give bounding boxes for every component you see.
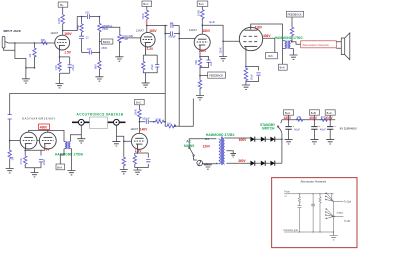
- wire center tap: [226, 151, 233, 154]
- net wire return vertical: [178, 34, 180, 127]
- node OT secondary top: [291, 41, 293, 43]
- svg-text:FEEDBACK: FEEDBACK: [288, 13, 302, 17]
- resistor R21 rail dropper 1: [296, 115, 303, 121]
- resistor R13 feedback: [290, 27, 293, 42]
- wire plate rail driver: [29, 130, 64, 141]
- net wire dry send vertical: [164, 26, 166, 122]
- wire grid driver: [10, 140, 40, 142]
- svg-text:B+C: B+C: [136, 101, 141, 105]
- svg-text:56K: 56K: [76, 25, 80, 30]
- svg-text:400V: 400V: [40, 125, 48, 129]
- svg-text:1uF: 1uF: [209, 61, 213, 66]
- svg-text:56K: 56K: [194, 60, 198, 65]
- reverb tank body: [90, 117, 108, 128]
- switch SW1 power: [189, 144, 197, 160]
- capacitor C11 cathode driver: [39, 159, 46, 168]
- svg-text:25uF: 25uF: [42, 159, 46, 165]
- svg-text:120V: 120V: [203, 145, 211, 149]
- wire rectifier join: [281, 139, 283, 163]
- svg-text:160V: 160V: [64, 32, 72, 36]
- net label B+C box mid: [135, 99, 145, 108]
- svg-text:100K: 100K: [155, 118, 161, 122]
- resistor R5 slope: [76, 16, 83, 34]
- transformer T1 output: [283, 41, 294, 65]
- attenuator resistor Ra2: [319, 194, 321, 232]
- svg-text:047: 047: [87, 47, 92, 51]
- ground cathode V1: [56, 84, 64, 88]
- resistor R11 cathode lower: [198, 80, 201, 96]
- potentiometer VR1 treble 250K: [98, 16, 113, 33]
- net label B+A box driver: [56, 164, 65, 170]
- speaker SPK1: [336, 33, 350, 60]
- wire volume wiper to V2 grid: [122, 37, 142, 39]
- resistor R3 100K plate: [57, 14, 65, 36]
- node jack shunt: [14, 42, 16, 44]
- svg-text:ACCUTRONICS 8AB2A1B: ACCUTRONICS 8AB2A1B: [77, 112, 124, 116]
- ground grid leak power: [219, 57, 227, 61]
- ground grid driver: [6, 169, 14, 173]
- svg-text:To 4R: To 4R: [344, 221, 350, 223]
- svg-text:250K: 250K: [101, 46, 107, 50]
- capacitor C4 047: [82, 47, 100, 55]
- svg-text:180V: 180V: [203, 29, 211, 33]
- svg-text:HAMMOND 1750C: HAMMOND 1750C: [275, 36, 304, 40]
- bass pot box VR2: [99, 33, 113, 51]
- ground center tap: [230, 153, 236, 157]
- attenuator switch fan upper: [325, 193, 343, 202]
- svg-text:160V: 160V: [149, 29, 157, 33]
- svg-text:B+C: B+C: [327, 111, 332, 115]
- svg-text:500pF: 500pF: [169, 35, 177, 39]
- diode D2: [261, 137, 271, 142]
- wire plate to OT primary: [251, 24, 283, 41]
- net label B+ box stage1: [58, 2, 68, 14]
- net label B+B box: [266, 52, 278, 58]
- svg-text:100K: 100K: [57, 18, 61, 24]
- wire tank output down: [115, 125, 117, 141]
- svg-text:HAMMOND 1750A: HAMMOND 1750A: [55, 153, 84, 157]
- svg-text:220K: 220K: [219, 47, 223, 53]
- attenuator bottom wire: [284, 231, 333, 233]
- cathode network recovery wires: [135, 149, 149, 170]
- ground filter 1: [285, 140, 293, 144]
- attenuator node dots top: [299, 193, 333, 194]
- potentiometer VR3 volume 1M: [118, 34, 134, 44]
- wire jack sleeve: [4, 43, 26, 79]
- node plate stage2: [146, 25, 148, 27]
- capacitor C14 filter 1: [285, 119, 294, 140]
- resistor R1 1M grid leak: [25, 43, 36, 69]
- ground filter 3: [326, 140, 334, 144]
- attenuator cap Ca2: [311, 194, 315, 232]
- svg-text:12AX7: 12AX7: [136, 28, 144, 32]
- resistor R9 100K plate stage3: [196, 9, 204, 25]
- svg-text:12AX7: 12AX7: [50, 31, 58, 35]
- svg-text:100K: 100K: [196, 10, 200, 16]
- resistor R6 6K8 bass bottom: [94, 42, 102, 77]
- node plate recovery: [139, 121, 141, 123]
- wire to V3 grid: [178, 38, 180, 40]
- cathode join driver wires: [25, 149, 45, 173]
- tube V5B driver triode: [39, 132, 56, 149]
- jack tank input: [78, 119, 84, 125]
- svg-text:B+C: B+C: [143, 2, 148, 6]
- svg-text:100K: 100K: [141, 13, 145, 19]
- resistor R14 cathode driver: [19, 155, 27, 168]
- ground filter 2: [310, 140, 318, 144]
- resistor R8 cathode stage2: [142, 60, 145, 71]
- attenuator network red box small: [301, 41, 337, 48]
- tube V2 triode: [141, 32, 156, 55]
- resistor R19 100K mix: [155, 118, 165, 124]
- svg-text:1M: 1M: [167, 122, 171, 126]
- net label FEEDBACK box top: [286, 11, 303, 26]
- svg-text:1M: 1M: [28, 54, 32, 58]
- diode D1: [250, 137, 260, 142]
- svg-text:418V: 418V: [255, 25, 263, 29]
- attenuator node dots bottom: [299, 231, 334, 232]
- voltage 400V red box driver: [39, 124, 50, 130]
- svg-text:B+A: B+A: [280, 66, 285, 70]
- svg-text:16R(4): 16R(4): [336, 213, 343, 215]
- cathode network V4 wires: [246, 52, 259, 85]
- attenuator network big red box: [272, 178, 357, 248]
- svg-text:INPUT JACK: INPUT JACK: [4, 29, 22, 33]
- tube V1 triode: [55, 35, 70, 52]
- svg-text:140V: 140V: [140, 128, 148, 132]
- diode D6: [270, 161, 282, 166]
- ground volume: [115, 42, 123, 61]
- svg-text:1M: 1M: [10, 157, 14, 161]
- svg-text:400V: 400V: [309, 116, 317, 120]
- ground tank output: [112, 142, 120, 146]
- svg-text:Attenuator Network: Attenuator Network: [301, 180, 327, 184]
- resistor R4 1.5K cathode: [54, 57, 61, 72]
- ground tank input: [77, 139, 85, 143]
- resistor R23 grid leak power: [219, 41, 224, 56]
- svg-text:HAMMOND 372BX: HAMMOND 372BX: [206, 133, 235, 137]
- svg-text:115: 115: [205, 137, 210, 141]
- resistor R7 100K plate stage2: [141, 9, 149, 20]
- resistor R22 rail dropper 2: [320, 115, 327, 121]
- svg-text:40uF: 40uF: [294, 127, 300, 131]
- svg-text:500pF: 500pF: [142, 116, 150, 120]
- input jack J1: [2, 29, 22, 48]
- tube V6 recovery triode: [131, 133, 147, 149]
- attenuator ground: [330, 232, 338, 240]
- ground recovery grid: [120, 170, 128, 174]
- wire plate V2 to caps: [147, 25, 168, 27]
- capacitor C9 cathode power: [250, 73, 261, 80]
- tube V3 triode: [194, 34, 210, 50]
- ground transformer reverb: [68, 171, 76, 175]
- capacitor C12 cathode recovery: [146, 160, 150, 162]
- resistor R18 cathode recovery: [133, 155, 136, 165]
- ground recovery cathode: [134, 170, 142, 174]
- net label B+A box OT: [278, 64, 287, 70]
- svg-text:Common gnd: Common gnd: [283, 229, 298, 232]
- svg-text:SWITCH: SWITCH: [262, 127, 275, 131]
- resistor R10 cathode upper: [194, 57, 202, 80]
- wire plate recovery out: [139, 121, 154, 123]
- attenuator switch fan lower: [325, 201, 343, 232]
- wire plate V3 to power grid: [202, 25, 240, 41]
- node mix left: [153, 121, 155, 123]
- attenuator resistor Ra1: [298, 194, 300, 206]
- svg-text:022: 022: [85, 10, 90, 14]
- cathode network V1: wire: [60, 52, 70, 84]
- wire plate V1 to coupling: [63, 17, 87, 31]
- resistor R16 1M recovery grid: [122, 141, 125, 169]
- tube V5A driver triode: [20, 132, 37, 149]
- wire return drop: [179, 99, 193, 127]
- svg-text:From: From: [284, 191, 290, 194]
- B+ rail wire: [282, 119, 335, 121]
- svg-text:1.2V: 1.2V: [147, 47, 154, 51]
- net label B+C box stage3: [197, 1, 208, 9]
- svg-text:12AX7: 12AX7: [130, 127, 138, 131]
- node plate stage3: [202, 25, 204, 27]
- capacitor C6 02: [170, 21, 179, 27]
- node mix mid: [164, 121, 166, 123]
- svg-text:40uF: 40uF: [320, 127, 326, 131]
- svg-text:8X 218R/460V: 8X 218R/460V: [340, 126, 357, 130]
- wire grid stage1: [8, 42, 55, 44]
- net label FEEDBACK box mid: [208, 72, 226, 78]
- capacitor C7 500pF parallel: [164, 26, 180, 39]
- capacitor C2 022 coupling: [85, 10, 99, 19]
- resistor R20 1M mix: [165, 122, 176, 128]
- svg-text:6L6: 6L6: [268, 54, 273, 58]
- svg-text:4K7: 4K7: [321, 115, 326, 119]
- transformer T2 reverb: [60, 135, 81, 171]
- ground OT secondary: [290, 49, 298, 60]
- svg-text:GA3Y6A4/6R26/6AY: GA3Y6A4/6R26/6AY: [22, 116, 56, 120]
- svg-text:50uF: 50uF: [250, 74, 254, 80]
- svg-text:6K8: 6K8: [94, 64, 98, 69]
- resistor R12 cathode power: [244, 67, 248, 83]
- svg-text:B+A: B+A: [57, 165, 62, 169]
- net label B+A rail box: [284, 110, 294, 120]
- resistor R2 68K grid stopper: [41, 38, 49, 45]
- cathode network V2 wires: [143, 55, 157, 83]
- svg-text:360V: 360V: [238, 159, 246, 163]
- svg-text:5puF: 5puF: [209, 20, 215, 24]
- svg-text:B+: B+: [60, 3, 64, 7]
- svg-text:1.5K: 1.5K: [54, 65, 58, 71]
- ground driver cathode: [31, 173, 39, 177]
- reverb tank bar: [72, 121, 126, 123]
- standby switch SW2: [277, 120, 282, 139]
- svg-text:600V: 600V: [239, 138, 247, 142]
- capacitor C10 send: [8, 115, 12, 119]
- svg-text:250K: 250K: [102, 27, 108, 31]
- svg-text:270R: 270R: [19, 158, 23, 164]
- capacitor C8 cathode bypass: [200, 57, 213, 68]
- svg-text:To Spk: To Spk: [344, 201, 352, 203]
- svg-text:310V: 310V: [325, 116, 333, 120]
- net label B+B rail box: [309, 110, 319, 120]
- ground bass: [95, 77, 103, 81]
- wire secondary top: [225, 137, 251, 139]
- svg-text:1.3V: 1.3V: [135, 149, 142, 153]
- wire send vertical left: [9, 93, 11, 140]
- ground stage3 cathode: [196, 96, 204, 100]
- resistor R15 1M grid driver: [8, 141, 14, 169]
- wire tank output to recovery grid: [116, 136, 131, 141]
- net label B+C box stage2: [142, 1, 152, 9]
- svg-text:B+B: B+B: [311, 111, 316, 115]
- wire cathode column: [199, 50, 201, 56]
- wire treble wiper to volume: [103, 27, 120, 34]
- capacitor C15 filter 2: [311, 119, 320, 140]
- svg-text:25uF: 25uF: [71, 64, 75, 70]
- capacitor C1 25uF bypass: [68, 57, 75, 73]
- svg-text:Attenuator Network: Attenuator Network: [302, 43, 329, 47]
- svg-text:100K: 100K: [133, 109, 137, 115]
- diode D4: [250, 161, 260, 166]
- svg-text:B+A: B+A: [285, 111, 290, 115]
- ground power cathode: [242, 85, 250, 89]
- svg-text:25uF: 25uF: [150, 64, 154, 70]
- wire screen to B+B box: [262, 38, 274, 52]
- wire primary top: [189, 139, 216, 144]
- transformer T3 power: [216, 137, 224, 165]
- jack tank output: [114, 119, 120, 125]
- resistor R17 100K plate recovery: [133, 109, 141, 134]
- svg-text:12AX7: 12AX7: [189, 28, 197, 32]
- attenuator cap Ca1: [297, 206, 301, 232]
- node feedback tap: [199, 75, 201, 77]
- wire red plate feed stage2: [146, 20, 148, 26]
- svg-text:1.5V: 1.5V: [64, 51, 71, 55]
- capacitor C3 02: [79, 33, 89, 52]
- ground input: [22, 79, 30, 83]
- wire primary bottom: [203, 163, 217, 164]
- node mix right: [174, 125, 176, 127]
- tube V4 6L6 power pentode: [239, 24, 262, 51]
- node input junction: [34, 42, 36, 44]
- svg-text:430V: 430V: [284, 116, 292, 120]
- svg-text:B+C: B+C: [199, 2, 204, 6]
- svg-text:10K: 10K: [297, 115, 302, 119]
- svg-text:FEEDBACK: FEEDBACK: [209, 73, 223, 77]
- capacitor C16 filter 3: [327, 119, 336, 140]
- ground cathode V2: [142, 83, 150, 87]
- net label B+C rail box: [325, 110, 335, 120]
- capacitor C13 mix: [142, 116, 150, 123]
- wire secondary bottom: [226, 162, 250, 164]
- wire tank input down: [80, 125, 82, 139]
- svg-text:BASS: BASS: [103, 40, 110, 44]
- diode D5: [261, 161, 271, 166]
- svg-text:1M: 1M: [124, 37, 128, 41]
- attenuator top wire: [284, 193, 333, 195]
- ground mains: [204, 165, 212, 169]
- capacitor C5 bypass stage2: [150, 55, 159, 71]
- wire dry send long horizontal: [10, 92, 166, 94]
- svg-text:68K: 68K: [41, 38, 46, 42]
- diode D3: [270, 137, 282, 142]
- fuse F1: [197, 160, 208, 166]
- svg-text:408V: 408V: [263, 34, 271, 38]
